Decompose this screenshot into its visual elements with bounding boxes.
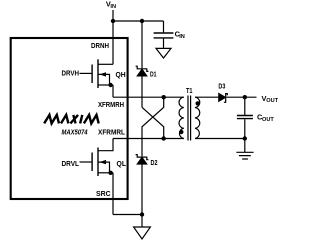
svg-text:DRVH: DRVH [62, 69, 80, 78]
svg-text:D1: D1 [150, 70, 157, 79]
ground CIN (open triangle) [156, 48, 171, 58]
node ground junction [140, 212, 144, 216]
svg-text:DRVL: DRVL [62, 159, 80, 168]
svg-text:QL: QL [117, 159, 127, 168]
wire SRC to ground [113, 214, 142, 216]
wire CIN stem [163, 39, 165, 49]
transistor QL [92, 148, 113, 215]
node XFRMRL junction [162, 136, 166, 140]
svg-text:T1: T1 [186, 86, 193, 95]
wire D3 to VOUT [227, 96, 257, 98]
transformer T1 core [188, 96, 191, 141]
wire crossover D1 to XFRMRL [142, 107, 164, 138]
diode D1 (schottky, pointing up) [136, 66, 149, 107]
transistor QH [92, 59, 113, 97]
wire VIN vertical into DRNH [112, 10, 114, 64]
svg-text:D3: D3 [218, 82, 225, 91]
wire D1 cathode drop [141, 21, 143, 68]
svg-text:XFRMRL: XFRMRL [98, 128, 125, 137]
node bottom output junction [243, 136, 247, 140]
svg-text:QH: QH [116, 70, 126, 79]
ground main (open triangle) [134, 227, 151, 239]
wire COUT stem [244, 119, 246, 138]
node VIN junction right [140, 19, 144, 23]
wire QL drain drop [98, 139, 113, 151]
capacitor CIN [154, 33, 174, 38]
wire crossover XFRMRH to D2 [142, 97, 164, 156]
node secondary phase dot [196, 101, 200, 105]
svg-text:DRNH: DRNH [91, 41, 109, 50]
svg-text:SRC: SRC [96, 189, 111, 198]
svg-text:IN: IN [179, 34, 185, 40]
wire COUT drop [244, 97, 246, 115]
svg-text:IN: IN [110, 4, 116, 10]
capacitor COUT [237, 116, 253, 119]
transformer T1 secondary winding [195, 97, 200, 138]
ground output (earth bars) [244, 139, 246, 153]
svg-text:OUT: OUT [262, 117, 274, 123]
node VIN junction left [111, 19, 115, 23]
wire DRVL gate stub [80, 161, 93, 163]
diode D3 (schottky, pointing right) [219, 94, 228, 103]
svg-text:MAX5074: MAX5074 [62, 128, 88, 137]
wire DRVH gate stub [80, 72, 93, 74]
node XFRMRH junction [162, 95, 166, 99]
transformer T1 primary winding [179, 97, 184, 138]
node primary phase dot [179, 130, 183, 134]
wire XFRMRL rail [113, 138, 184, 140]
svg-text:D2: D2 [151, 158, 158, 167]
wire ground stem [141, 215, 143, 228]
wire secondary bottom rail [195, 138, 245, 140]
svg-text:XFRMRH: XFRMRH [98, 100, 124, 109]
IC box MAX5074 [11, 38, 128, 199]
wire CIN drop [163, 21, 165, 32]
node VOUT junction [243, 95, 247, 99]
logo MAXIM [44, 115, 98, 124]
wire XFRMRH rail [113, 96, 184, 98]
wire secondary top to D3 [195, 96, 219, 98]
diode D2 (schottky, pointing up) [136, 155, 149, 215]
wire top rail VIN [113, 20, 164, 22]
svg-text:OUT: OUT [266, 98, 278, 104]
